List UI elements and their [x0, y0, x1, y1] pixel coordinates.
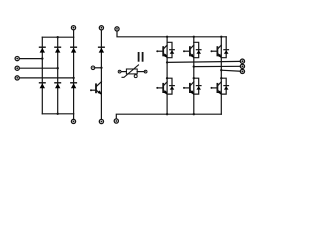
terminal output V — [240, 64, 244, 68]
diode D4 — [40, 83, 46, 88]
capacitor DC link plate 1 — [138, 52, 140, 62]
junction output U — [166, 61, 168, 63]
wire inverter leg 3 — [220, 37, 222, 114]
terminal chopper emitter — [99, 119, 103, 123]
terminal rectifier DC+ — [71, 26, 75, 30]
wire rectifier leg 1 — [41, 37, 43, 114]
junction phase1-leg1 — [41, 57, 43, 59]
diode D7 chopper — [99, 47, 105, 52]
diode D12 freewheel top — [194, 42, 201, 57]
junction N rail leg2 — [193, 113, 195, 115]
junction N rail leg1 — [166, 113, 168, 115]
diode D2 — [71, 83, 77, 88]
junction diode branch — [193, 77, 195, 79]
wire AC phase 1 — [20, 58, 43, 60]
wire rectifier DC- stub — [73, 114, 75, 119]
terminal AC input 3 — [15, 76, 19, 80]
wire chopper leg — [100, 30, 102, 119]
terminal chopper midpoint — [91, 66, 95, 70]
transistor Q7 chopper — [92, 82, 103, 96]
wire rectifier leg 2 — [57, 37, 59, 114]
terminal chopper diode cathode — [99, 26, 103, 30]
junction diode branch — [166, 77, 168, 79]
wire output U — [167, 61, 240, 62]
terminal rectifier DC- — [71, 119, 75, 123]
wire rectifier DC+ stub — [73, 30, 75, 37]
junction P rail leg1 — [166, 36, 168, 38]
junction diode branch — [220, 77, 222, 79]
diode D16 freewheel bottom — [221, 78, 228, 94]
terminal chopper gate — [90, 89, 92, 91]
thermistor theta mark — [134, 75, 137, 78]
wire N rail — [116, 114, 221, 119]
junction chopper midpoint — [100, 67, 102, 69]
diode D11 freewheel top — [167, 42, 174, 57]
wire rectifier top rail — [42, 36, 73, 38]
wire thermistor right lead — [137, 71, 144, 73]
junction P rail leg3 — [220, 36, 222, 38]
terminal output W — [240, 69, 244, 73]
wire AC phase 2 — [20, 67, 58, 69]
junction bottom rail leg2 — [57, 113, 59, 115]
wire inverter leg 1 — [166, 37, 168, 114]
terminal thermistor left — [118, 70, 121, 73]
terminal DC link N — [114, 119, 118, 123]
thermistor R(NTC) body — [126, 69, 137, 74]
wire rectifier leg 3 — [73, 37, 75, 114]
transistor Q4 bottom leg — [156, 82, 168, 96]
thermistor diagonal — [122, 65, 139, 77]
junction phase2-leg2 — [57, 67, 59, 69]
wire thermistor left lead — [121, 71, 126, 73]
transistor Q1 top leg — [156, 45, 168, 59]
diode D6 — [55, 83, 61, 88]
transistor Q6 bottom leg — [211, 82, 223, 96]
transistor Q3 top leg — [211, 45, 223, 59]
terminal AC input 1 — [15, 57, 19, 61]
junction output W — [220, 69, 222, 71]
terminal thermistor right — [144, 70, 147, 73]
diode D3 — [55, 47, 61, 52]
diode D13 freewheel top — [221, 37, 228, 58]
junction P rail leg2 — [193, 36, 195, 38]
terminal output U — [240, 59, 244, 63]
diode D1 — [40, 47, 46, 52]
terminal AC input 2 — [15, 66, 19, 70]
wire output W — [221, 70, 240, 71]
wire AC phase 3 — [20, 77, 74, 79]
terminal DC link P — [115, 27, 119, 31]
wire chopper midpoint lead — [95, 67, 102, 69]
diode D5 — [71, 47, 77, 52]
diode D14 freewheel bottom — [167, 78, 174, 94]
wire inverter leg 2 — [193, 37, 195, 114]
wire output V — [194, 65, 240, 67]
transistor Q5 bottom leg — [183, 82, 195, 96]
transistor Q2 top leg — [183, 45, 195, 59]
junction top rail leg2 — [57, 36, 59, 38]
wire P rail — [117, 31, 226, 37]
junction phase3-leg3 — [72, 77, 74, 79]
capacitor DC link plate 2 — [142, 52, 144, 62]
junction output V — [193, 65, 195, 67]
wire rectifier bottom rail — [42, 113, 73, 115]
diode D15 freewheel bottom — [194, 78, 201, 94]
